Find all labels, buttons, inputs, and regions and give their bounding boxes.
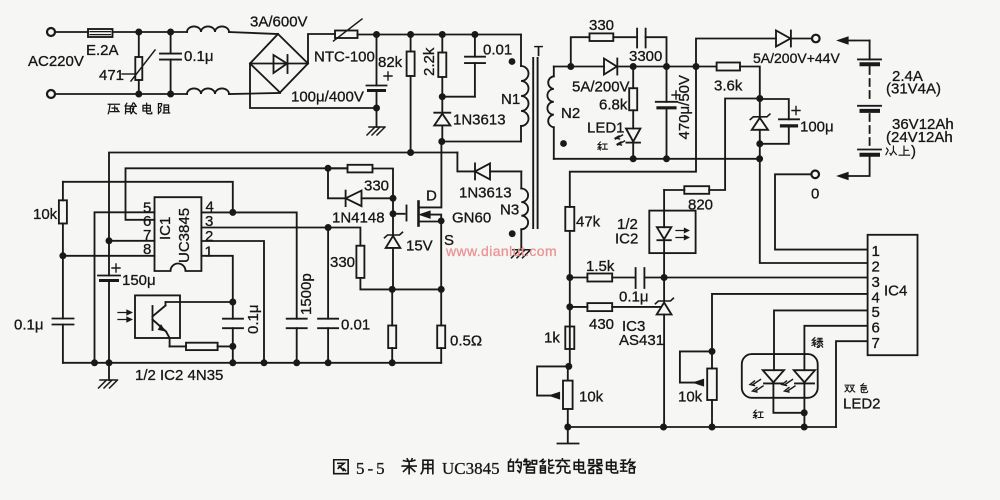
optocoupler 4N35 box: [135, 295, 180, 338]
svg-text:N3: N3: [500, 202, 519, 219]
wire IC4 pin4: [712, 294, 868, 369]
transformer core: [533, 58, 537, 228]
resistor 1.5k: [570, 277, 588, 279]
wire: [229, 93, 280, 94]
resistor 330 sense: [356, 246, 364, 278]
node J4: [167, 91, 174, 98]
wire snubber join: [442, 96, 475, 98]
svg-text:D: D: [426, 188, 437, 205]
svg-text:UC3845: UC3845: [442, 459, 500, 478]
zener 15V: [392, 214, 394, 290]
svg-text:(31V4A): (31V4A): [886, 81, 941, 98]
node bus 0.1u: [229, 359, 236, 366]
node J2: [167, 29, 174, 36]
LED2 red arrows: [750, 380, 761, 386]
capacitor 470u/50V: [666, 67, 668, 159]
node bus pot-right: [709, 424, 716, 431]
node bus gnd: [106, 359, 113, 366]
IC4 box: [868, 235, 918, 355]
svg-text:3300: 3300: [629, 48, 662, 65]
ground bus symbol: [108, 363, 110, 380]
capacitor 0.1u comp pin1: [232, 302, 234, 363]
svg-text:www.dianlut.com: www.dianlut.com: [445, 243, 557, 259]
node rail B: [407, 31, 414, 38]
diode 5A/200V secondary: [604, 59, 617, 75]
svg-text:0.1μ: 0.1μ: [245, 305, 262, 335]
battery stack 36V12Ah: [869, 41, 871, 60]
resistor 0.5ohm: [440, 289, 442, 362]
node bus Rsense: [389, 359, 396, 366]
svg-text:100μ: 100μ: [800, 119, 834, 136]
svg-text:0.01: 0.01: [483, 42, 512, 59]
LED2 rounded box: [742, 354, 818, 398]
wire battery bottom arrow: [838, 173, 848, 180]
wire pin5 gnd: [95, 212, 155, 362]
svg-text:47k: 47k: [576, 214, 601, 231]
wire pin8 vref: [63, 255, 155, 257]
inductor L1 top: [187, 26, 229, 32]
svg-text:1N4148: 1N4148: [332, 210, 385, 227]
svg-text:471: 471: [99, 67, 124, 84]
resistor 6.8k: [632, 67, 634, 129]
svg-text:5: 5: [872, 304, 880, 321]
wire pin2 fb: [201, 241, 264, 363]
varistor 471: [138, 32, 140, 57]
node bus pot-left: [564, 424, 571, 431]
node pin7: [106, 237, 113, 244]
LED2 red element: [763, 370, 784, 382]
svg-text:6: 6: [872, 320, 880, 337]
wire 471 pointer: [122, 73, 134, 75]
node pin1 opto: [229, 299, 236, 306]
svg-text:1k: 1k: [544, 330, 560, 347]
svg-text:1/2 IC2 4N35: 1/2 IC2 4N35: [135, 367, 223, 384]
LED2 green element: [794, 370, 815, 382]
svg-text:2.2k: 2.2k: [421, 47, 438, 76]
label dual color: [845, 385, 855, 392]
svg-text:GN60: GN60: [452, 210, 491, 227]
node bus 1500p: [293, 359, 300, 366]
wire: [229, 32, 278, 34]
capacitor 0.1u vref: [53, 319, 74, 325]
node LED2 join: [801, 409, 808, 416]
capacitor 100u parallel: [760, 99, 789, 144]
resistor 1k: [565, 327, 574, 350]
capacitor 0.01 sense: [327, 228, 329, 363]
svg-text:6.8k: 6.8k: [599, 97, 628, 114]
resistor 820: [664, 189, 684, 191]
node snubber: [439, 93, 446, 100]
svg-text:10k: 10k: [579, 389, 604, 406]
node LED1 bottom: [630, 155, 637, 162]
node bus p5: [91, 359, 98, 366]
terminal AC bottom: [47, 90, 55, 98]
ground secondary: [558, 427, 579, 444]
wire N2 top edge: [554, 66, 604, 68]
wire bridge DC+ to NTC: [308, 34, 335, 64]
svg-text:1: 1: [205, 244, 213, 261]
capacitor 0.01 snubber: [474, 35, 476, 97]
N3 phase dot: [509, 230, 516, 237]
resistor filter: [391, 289, 393, 362]
svg-text:1500p: 1500p: [298, 273, 315, 315]
fuse E.2A: [88, 29, 113, 37]
svg-text:IC2: IC2: [615, 231, 638, 248]
svg-text:330: 330: [364, 178, 389, 195]
N1 phase dot: [509, 58, 516, 65]
potentiometer 10k left: [563, 381, 573, 409]
svg-text:0.1μ: 0.1μ: [619, 289, 649, 306]
svg-text:2: 2: [205, 228, 213, 245]
svg-text:0: 0: [811, 186, 819, 203]
node 82k bottom: [407, 149, 414, 156]
svg-text:AS431: AS431: [619, 332, 664, 349]
svg-text:5A/200V: 5A/200V: [572, 79, 630, 96]
svg-text:150μ: 150μ: [122, 272, 156, 289]
svg-text:): ): [911, 143, 916, 160]
svg-text:100μ/400V: 100μ/400V: [291, 89, 364, 106]
node bus end: [756, 155, 763, 162]
svg-text:7: 7: [872, 335, 880, 352]
svg-text:5A/200V+44V: 5A/200V+44V: [753, 50, 840, 66]
zener diode clamp: [759, 99, 761, 144]
wire pin4: [201, 212, 296, 318]
mosfet GN60: [406, 206, 408, 221]
svg-text:3.6k: 3.6k: [714, 78, 743, 95]
node bus AS431: [660, 424, 667, 431]
snubber 330 + 3300: [571, 37, 590, 66]
wire: [55, 31, 88, 33]
ground primary: [367, 127, 385, 135]
wire to top rail: [358, 34, 522, 36]
svg-text:470μ/50V: 470μ/50V: [676, 75, 693, 140]
svg-text:0.5Ω: 0.5Ω: [450, 333, 482, 350]
IC2 LED arrows: [676, 229, 689, 240]
svg-text:15V: 15V: [406, 238, 433, 255]
IC1 UC3845 box: [155, 197, 202, 271]
4N35 phototransistor: [152, 306, 154, 330]
wire pin1 comp: [201, 256, 232, 302]
label yi shang: [886, 146, 896, 155]
resistor emitter: [170, 345, 186, 347]
capacitor 100u/400V: [376, 35, 378, 128]
svg-text:820: 820: [688, 197, 713, 214]
node rail C: [439, 31, 446, 38]
label red LED2: [753, 410, 763, 418]
node gate: [390, 210, 397, 217]
node J1: [135, 29, 142, 36]
svg-text:IC4: IC4: [884, 283, 907, 300]
svg-text:430: 430: [589, 316, 614, 333]
terminal 0: [811, 171, 819, 179]
svg-text:2: 2: [872, 259, 880, 276]
node gate RC: [325, 165, 332, 172]
node bus LED2: [801, 424, 808, 431]
ground N3: [512, 250, 531, 258]
wire N2 bottom edge: [554, 158, 760, 160]
svg-text:10k: 10k: [33, 206, 58, 223]
wire battery top with arrow: [845, 40, 870, 42]
LED1 arrows: [616, 135, 623, 139]
wire IC4 pin5 to red LED: [774, 310, 868, 370]
wire bridge DC-: [250, 64, 377, 109]
node zener bottom: [756, 140, 763, 147]
svg-text:0.01: 0.01: [341, 317, 370, 334]
resistor 330 gate: [328, 167, 348, 169]
wire +44V branch: [696, 39, 776, 67]
LED1 red: [626, 129, 640, 142]
node pot-left top: [565, 363, 572, 370]
wire vcc rail: [109, 153, 457, 241]
wire 0 terminal to IC4 pin1: [775, 174, 868, 249]
wire IC4 pin6 to green LED: [804, 326, 867, 370]
wire drain line / N1 bottom: [441, 141, 521, 143]
wire +V to 47k: [570, 67, 696, 207]
inductor L2 bottom: [187, 88, 229, 94]
resistor 82k: [410, 35, 412, 153]
LED2 green arrows: [782, 380, 793, 386]
wire pin3 sense: [201, 228, 360, 246]
node sense R: [438, 286, 445, 293]
node source: [438, 218, 445, 225]
shunt regulator IC3 AS431: [663, 278, 665, 428]
svg-text:1.5k: 1.5k: [586, 258, 615, 275]
capacitor 0.1u line filter: [170, 32, 172, 94]
node J3: [135, 91, 142, 98]
optocoupler IC2 LED half: [649, 211, 695, 254]
node zener top: [756, 95, 763, 102]
svg-text:1N3613: 1N3613: [453, 112, 506, 129]
terminal +44V: [812, 35, 820, 43]
resistor 2.2k: [441, 35, 443, 97]
resistor 3.6k: [717, 63, 740, 71]
label red LED1: [598, 142, 608, 150]
svg-text:8: 8: [143, 241, 151, 258]
svg-text:3A/600V: 3A/600V: [250, 14, 308, 31]
diode 5A/200V+44V: [776, 31, 790, 47]
diode 1N3613 second: [474, 163, 476, 179]
svg-text:330: 330: [589, 17, 614, 34]
svg-text:(24V12Ah: (24V12Ah: [886, 129, 953, 146]
label green LED2: [812, 338, 823, 348]
potentiometer 10k right: [707, 369, 717, 401]
node bus 0.01: [325, 359, 332, 366]
diode 1N3613 first: [441, 97, 443, 142]
node 470u bottom: [663, 155, 670, 162]
resistor 430: [570, 306, 588, 308]
svg-text:N2: N2: [561, 105, 580, 122]
node pot top tap: [709, 348, 716, 355]
svg-text:T: T: [534, 43, 543, 60]
wire IC4 pin3 to AS431: [664, 277, 868, 279]
node bus pin2: [261, 359, 268, 366]
wire IC4 pin7: [836, 341, 868, 427]
node pin3 0.01: [325, 224, 332, 231]
node sense L: [389, 286, 396, 293]
svg-text:330: 330: [330, 254, 355, 271]
svg-text:LED1: LED1: [587, 120, 625, 137]
resistor 47k: [565, 207, 574, 231]
svg-text:3: 3: [872, 274, 880, 291]
svg-text:E.2A: E.2A: [86, 42, 119, 59]
wire rail to 3.6k: [667, 66, 717, 68]
node DC-: [373, 105, 380, 112]
node pin8 10k: [59, 252, 66, 259]
svg-text:0.1μ: 0.1μ: [14, 317, 44, 334]
svg-text:1N3613: 1N3613: [459, 185, 512, 202]
node +V feed: [693, 63, 700, 70]
wire primary gnd bus: [63, 362, 441, 364]
capacitor 150u: [108, 241, 110, 363]
wire bottom secondary bus: [568, 426, 836, 428]
node rail D: [471, 31, 478, 38]
node pin4: [229, 209, 236, 216]
diode 1N4148: [328, 168, 346, 198]
svg-text:5-5: 5-5: [356, 459, 388, 478]
svg-text:NTC-100: NTC-100: [314, 49, 375, 66]
wire zener node down to IC4 pin2: [760, 144, 868, 263]
4N35 input arrows: [118, 310, 132, 321]
node snub left: [567, 63, 574, 70]
thermistor NTC-100: [335, 31, 358, 39]
wire: [55, 93, 187, 95]
node divider ref: [566, 303, 573, 310]
node 470u top: [663, 63, 670, 70]
svg-text:LED2: LED2: [843, 396, 881, 413]
N2 phase dot: [560, 140, 567, 147]
svg-text:N1: N1: [501, 91, 520, 108]
svg-text:10k: 10k: [678, 389, 703, 406]
capacitor 0.1u comp: [612, 277, 664, 279]
svg-text:0.1μ: 0.1μ: [184, 48, 214, 65]
bridge rectifier 3A/600V: [250, 34, 308, 93]
node emitter R: [229, 343, 236, 350]
wire pin7 vcc: [109, 240, 155, 242]
node AS431 cathode: [661, 274, 668, 281]
capacitor 1500p: [287, 319, 307, 329]
svg-text:1: 1: [872, 243, 880, 260]
node drain line: [438, 138, 445, 145]
svg-text:UC3845: UC3845: [176, 208, 193, 263]
wire pin6 out: [126, 168, 348, 220]
transformer N3 winding: [520, 171, 522, 249]
transformer N2 winding: [553, 67, 555, 159]
node 1N4148 gate: [390, 195, 397, 202]
svg-text:IC1: IC1: [157, 217, 174, 240]
node rail A: [373, 31, 380, 38]
resistor 10k left: [62, 182, 64, 363]
caption cjk: [334, 460, 348, 474]
wire: [113, 31, 188, 33]
svg-text:82k: 82k: [378, 54, 403, 71]
wire vcc to diode2: [457, 153, 475, 172]
node 6.8k tap: [630, 63, 637, 70]
node divider upper: [566, 274, 573, 281]
svg-text:AC220V: AC220V: [28, 53, 84, 70]
label varistor cjk: [108, 104, 119, 113]
transformer N1 winding: [520, 35, 522, 142]
terminal AC top: [47, 28, 55, 36]
